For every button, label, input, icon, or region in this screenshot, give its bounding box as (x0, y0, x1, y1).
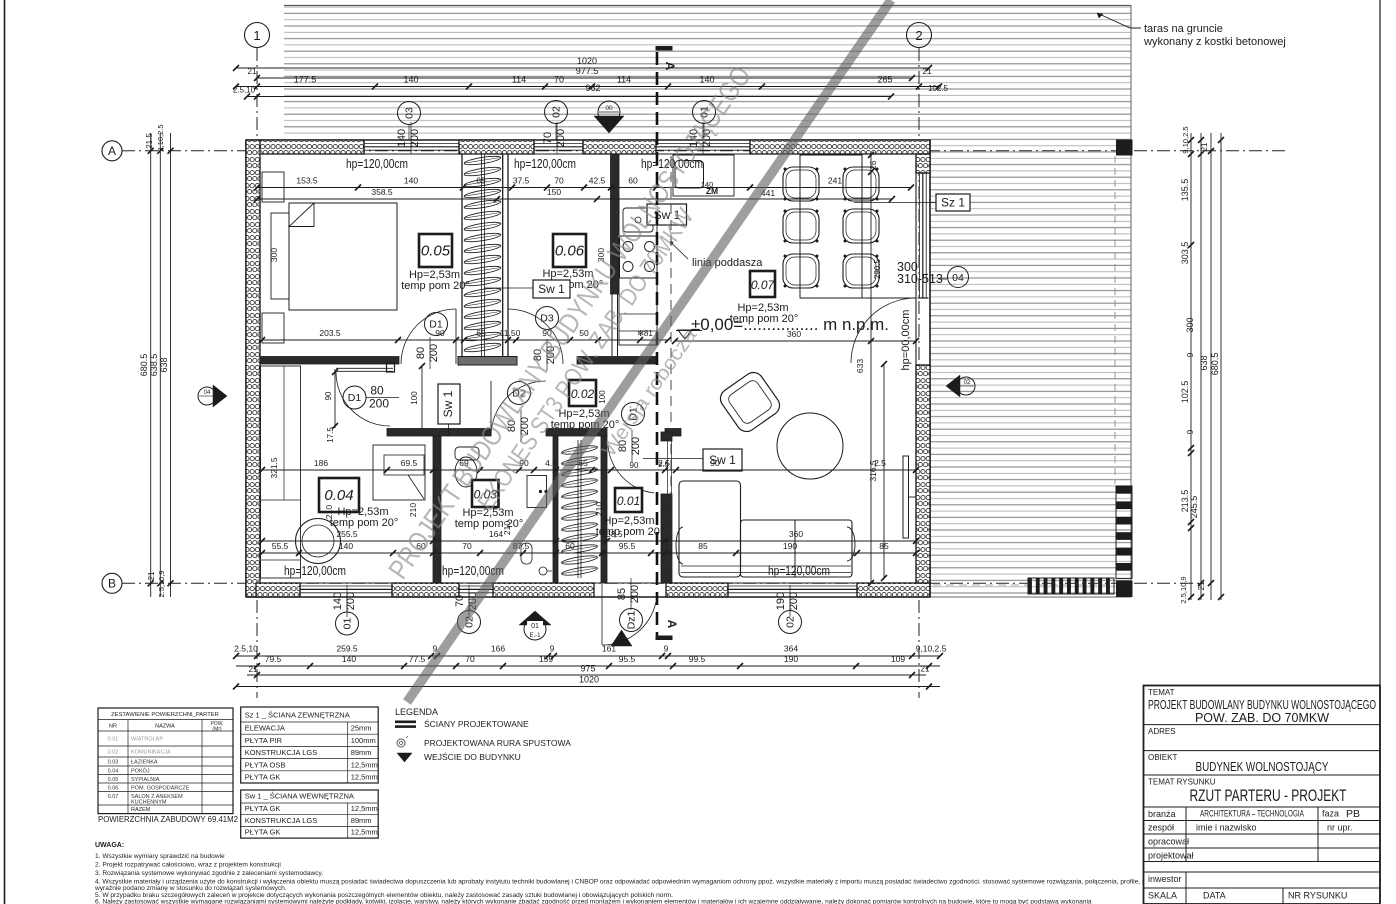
svg-text:02: 02 (551, 106, 563, 118)
svg-text:NR: NR (109, 724, 117, 730)
exterior wall top hatch segment 3 (583, 140, 656, 154)
bed in bedroom 0.05 (289, 203, 397, 310)
svg-text:ZESTAWIENIE POWIERZCHNI_PARTER: ZESTAWIENIE POWIERZCHNI_PARTER (111, 712, 219, 718)
top dimension row segments (236, 86, 939, 88)
exterior wall top hatch segment 1 (246, 140, 364, 154)
interior dim row C (bottom rooms) (262, 469, 916, 471)
svg-text:100: 100 (410, 391, 419, 405)
svg-text:1: 1 (253, 28, 260, 43)
svg-text:89mm: 89mm (351, 748, 372, 757)
grid line 2 (vertical axis) (918, 48, 920, 698)
elevation marker left (213, 385, 227, 407)
svg-text:NAZWA: NAZWA (155, 724, 175, 730)
svg-text:65: 65 (476, 176, 486, 186)
svg-text:358.5: 358.5 (371, 187, 393, 197)
room label 0.02 (569, 380, 596, 406)
interior wall H2c (vestibule top stub) (665, 429, 681, 437)
svg-text:POKÓJ: POKÓJ (131, 767, 150, 774)
door marker D1 (vestibule) (622, 403, 645, 426)
svg-text:0.01: 0.01 (617, 494, 640, 508)
svg-text:A: A (663, 62, 677, 71)
svg-text:RZUT PARTERU - PROJEKT: RZUT PARTERU - PROJEKT (1190, 787, 1347, 805)
svg-text:85: 85 (698, 541, 708, 551)
terrace bottom edge line (930, 596, 1131, 598)
svg-text:D1: D1 (348, 392, 362, 404)
elevation marker right (946, 375, 960, 397)
svg-text:A: A (665, 620, 679, 629)
interior wall V6 (stairwell lower right) (601, 436, 607, 583)
svg-text:imie i nazwisko: imie i nazwisko (1196, 823, 1257, 833)
svg-text:190: 190 (775, 592, 787, 610)
svg-text:95.5: 95.5 (619, 541, 636, 551)
grid line B (horizontal axis) (122, 582, 1200, 584)
svg-text:9: 9 (550, 644, 555, 654)
dining table (800, 155, 862, 298)
svg-text:2.5,10: 2.5,10 (233, 86, 256, 95)
sofa left armrest (676, 527, 683, 564)
svg-text:SKALA: SKALA (1148, 891, 1177, 901)
svg-text:0.04: 0.04 (108, 768, 119, 774)
staircase upper center rails (481, 154, 483, 356)
interior wall V5 (stairwell lower left) (553, 436, 558, 583)
svg-text:55.5: 55.5 (272, 541, 289, 551)
svg-text:hp=120,00cm: hp=120,00cm (346, 157, 408, 171)
bottom dimension row segments 2 (236, 665, 940, 667)
svg-text:11.50: 11.50 (500, 328, 521, 338)
dining chair left 3 (783, 254, 819, 288)
svg-text:PŁYTA GK: PŁYTA GK (245, 828, 281, 837)
wardrobe strip in room 0.04 (261, 366, 301, 578)
svg-text:80: 80 (370, 384, 384, 398)
legend downpipe symbol (397, 739, 405, 747)
svg-text:70: 70 (554, 75, 564, 85)
section line A-A vertical (thick dashed) (656, 52, 659, 640)
window 01 in top wall (140/200) (656, 142, 750, 144)
round coffee table (777, 413, 843, 479)
svg-text:140: 140 (339, 541, 353, 551)
tv panel on right wall (903, 456, 909, 538)
left dimension column lines (150, 133, 152, 597)
svg-text:265: 265 (877, 75, 892, 85)
svg-text:OBIEKT: OBIEKT (1148, 753, 1177, 762)
svg-text:140: 140 (699, 75, 714, 85)
water heater square in bathroom (527, 476, 547, 508)
interior wall V4 (between 0.04 and 0.03) (433, 436, 441, 583)
svg-text:140: 140 (404, 176, 418, 186)
jamb post between D1 doors (387, 363, 395, 372)
exterior wall top hatch segment 2 (459, 140, 534, 154)
kitchen counter shelf lines (619, 313, 657, 315)
room label 0.07 (750, 271, 775, 297)
svg-text:638.5: 638.5 (149, 354, 159, 377)
vestibule door frame lines (667, 441, 669, 494)
desk in room 0.04 (373, 445, 425, 500)
terrace hatch top band (284, 5, 1131, 136)
svg-text:BUDYNEK WOLNOSTOJĄCY: BUDYNEK WOLNOSTOJĄCY (1196, 759, 1329, 774)
interior wall H2a (bathroom 0.03 top wall) (387, 429, 491, 437)
svg-text:Sz 1 _ ŚCIANA ZEWNĘTRZNA: Sz 1 _ ŚCIANA ZEWNĘTRZNA (245, 711, 350, 720)
wall label box Sz 1 (right wall) (936, 194, 970, 211)
svg-text:153.5: 153.5 (296, 176, 318, 186)
wall table Sz 1 sciana zewnetrzna (241, 707, 379, 783)
svg-text:nr upr.: nr upr. (1327, 823, 1353, 833)
interior dim row D (bottom rooms) (262, 540, 916, 542)
terrace bottom dashed line (933, 584, 1113, 586)
svg-text:Sz 1: Sz 1 (941, 196, 965, 210)
wall table Sw 1 sciana wewnetrzna (241, 790, 379, 838)
toilet in bathroom 0.03 (455, 447, 479, 460)
dining chair right 2 (843, 209, 879, 243)
svg-text:faza: faza (1322, 809, 1339, 819)
svg-text:(M²): (M²) (212, 727, 221, 733)
room label 0.06 (553, 234, 586, 267)
bottom dimension row 975 (247, 674, 926, 676)
svg-text:ŚCIANY PROJEKTOWANE: ŚCIANY PROJEKTOWANE (424, 718, 529, 729)
washing machine in room 0.04 (296, 519, 341, 564)
interior wall H1c (right of D3 door, under kitchen wall) (577, 357, 656, 365)
exterior wall bottom hatch segment 3 (493, 583, 594, 597)
svg-text:962: 962 (585, 83, 600, 93)
svg-text:01: 01 (342, 618, 354, 630)
svg-text:21: 21 (923, 67, 932, 76)
wall label box Sw 1 (living room) (703, 449, 742, 471)
svg-text:TEMAT RYSUNKU: TEMAT RYSUNKU (1148, 778, 1216, 787)
svg-text:9: 9 (664, 644, 669, 654)
svg-text:26: 26 (869, 160, 878, 169)
entrance black triangle (wejscie) (611, 630, 632, 646)
svg-text:2.5,10,9: 2.5,10,9 (1179, 576, 1188, 603)
watermark diagonal band (407, 0, 891, 702)
svg-text:140: 140 (403, 75, 418, 85)
svg-text:100mm: 100mm (351, 736, 376, 745)
svg-text:0.05: 0.05 (108, 777, 119, 783)
exterior wall top - outer and inner face lines (246, 139, 930, 141)
svg-text:KOMUNIKACJA: KOMUNIKACJA (131, 750, 171, 756)
svg-text:4.5: 4.5 (545, 458, 557, 468)
svg-text:wyraźnie podano zmianę w stosu: wyraźnie podano zmianę w stosunku do roz… (94, 885, 287, 892)
svg-text:DATA: DATA (1203, 891, 1226, 901)
legend entrance symbol (397, 753, 412, 762)
svg-text:42.5: 42.5 (589, 176, 606, 186)
svg-text:177.5: 177.5 (294, 75, 317, 85)
exterior wall left (245, 140, 247, 597)
svg-text:166: 166 (491, 644, 505, 654)
door dim 100 vertical (bedroom D1) (421, 366, 423, 430)
svg-text:✻81: ✻81 (637, 329, 653, 338)
svg-text:210: 210 (324, 505, 334, 519)
svg-text:60: 60 (565, 541, 575, 551)
window 04 in right wall (glazed band) (918, 173, 920, 298)
svg-text:203.5: 203.5 (319, 328, 341, 338)
svg-text:2: 2 (915, 28, 922, 43)
svg-text:90: 90 (710, 458, 720, 468)
svg-text:04: 04 (204, 390, 211, 396)
dining chair right 3 (843, 254, 879, 288)
terrace hatch right band (930, 136, 1131, 597)
svg-text:114: 114 (512, 75, 526, 85)
nightstand lower (262, 313, 284, 343)
svg-text:PŁYTA GK: PŁYTA GK (245, 804, 281, 813)
svg-text:02: 02 (785, 616, 797, 628)
window marker 02 top (545, 101, 568, 124)
exterior wall bottom hatch segment 5 (857, 583, 930, 597)
svg-text:638: 638 (159, 357, 169, 372)
door marker D2 (508, 382, 531, 405)
window 03 in top wall (140/200) (364, 142, 459, 144)
armchair (rotated) in living room (717, 369, 784, 436)
stairwell upper right boundary double line (502, 154, 504, 356)
svg-text:360: 360 (787, 329, 801, 339)
svg-text:60: 60 (628, 176, 638, 186)
svg-text:zespół: zespół (1148, 823, 1174, 833)
wall label box Sw 1 (corridor, vertical) (438, 384, 460, 424)
svg-text:04: 04 (952, 272, 964, 284)
svg-text:9: 9 (1186, 352, 1195, 357)
svg-text:90: 90 (435, 328, 445, 338)
svg-text:210: 210 (408, 503, 418, 517)
svg-text:inwestor: inwestor (1148, 874, 1182, 884)
interior wall V7a (vestibule/living wall top stub) (661, 432, 672, 441)
svg-text:LEGENDA: LEGENDA (395, 707, 438, 717)
window 02 in top wall (70/200) (534, 142, 583, 144)
svg-text:21: 21 (248, 67, 257, 76)
svg-text:hp=120,00cm: hp=120,00cm (514, 157, 576, 171)
svg-text:977.5: 977.5 (576, 66, 599, 76)
svg-text:0.07: 0.07 (751, 278, 776, 292)
exterior wall bottom hatch segment 1 (256, 583, 300, 597)
window O1 in bottom wall (140/200) (300, 585, 392, 587)
svg-text:680.5: 680.5 (139, 354, 149, 377)
kitchen sink (623, 208, 653, 232)
exterior wall bottom - face lines (246, 596, 930, 598)
landing slab below upper stairs (458, 357, 517, 366)
watermark text PROJEKT BUDOWLANY (382, 61, 757, 585)
svg-text:hp=120,00cm: hp=120,00cm (768, 564, 830, 578)
svg-text:25mm: 25mm (351, 724, 372, 733)
svg-text:159: 159 (539, 654, 553, 664)
svg-text:95.5: 95.5 (619, 654, 636, 664)
kitchen stove with 4 burners (620, 236, 658, 278)
staircase lower center rails (577, 440, 579, 578)
sofa cushion lines (794, 520, 796, 577)
svg-text:UWAGA:: UWAGA: (95, 842, 124, 849)
svg-text:02: 02 (964, 380, 971, 386)
svg-text:65: 65 (476, 328, 486, 338)
legend wall symbol (395, 721, 416, 724)
svg-text:77.5: 77.5 (409, 654, 426, 664)
svg-text:186: 186 (314, 458, 328, 468)
window marker O2b bottom (779, 611, 802, 634)
svg-text:241: 241 (828, 176, 842, 186)
svg-text:102.5: 102.5 (928, 84, 949, 93)
svg-text:12,5mm: 12,5mm (351, 828, 378, 837)
svg-text:21.5: 21.5 (145, 133, 154, 149)
svg-text:KONSTRUKCJA LGS: KONSTRUKCJA LGS (245, 816, 318, 825)
svg-text:WEJŚCIE DO BUDYNKU: WEJŚCIE DO BUDYNKU (424, 751, 521, 762)
sofa right armrest (847, 527, 855, 561)
svg-text:hp=00,00cm: hp=00,00cm (900, 310, 912, 371)
svg-text:0.04: 0.04 (324, 487, 353, 504)
svg-text:12,5mm: 12,5mm (351, 804, 378, 813)
terrace roof overhang dashed line (1114, 156, 1116, 484)
svg-text:ARCHITEKTURA – TECHNOLOGIA: ARCHITEKTURA – TECHNOLOGIA (1200, 809, 1304, 820)
svg-text:21: 21 (921, 665, 930, 674)
elevation marker top (at 609,112) (594, 116, 624, 133)
svg-text:21: 21 (249, 665, 258, 674)
room label 0.01 (615, 488, 642, 512)
interior wall V3 (kitchen wall) (611, 154, 620, 294)
svg-text:E.-1: E.-1 (529, 633, 541, 639)
svg-text:0.05: 0.05 (421, 243, 451, 260)
svg-text:branża: branża (1148, 809, 1176, 819)
svg-text:WIATROŁAP: WIATROŁAP (131, 737, 163, 743)
svg-text:70: 70 (454, 595, 466, 607)
svg-text:69.5: 69.5 (401, 458, 418, 468)
svg-text:temp pom 20°: temp pom 20° (330, 517, 399, 529)
svg-text:70: 70 (542, 132, 554, 144)
svg-text:2.5,10: 2.5,10 (234, 644, 258, 654)
svg-text:21: 21 (147, 571, 156, 580)
exterior wall right hatch segment 2 (916, 365, 930, 583)
living room dim 360 row (675, 340, 916, 342)
svg-text:12,5mm: 12,5mm (351, 760, 378, 769)
svg-text:37.5: 37.5 (513, 176, 530, 186)
svg-text:temp pom 20°: temp pom 20° (401, 280, 470, 292)
svg-text:21: 21 (1200, 142, 1209, 151)
svg-text:210: 210 (594, 502, 604, 516)
svg-text:PŁYTA PIR: PŁYTA PIR (245, 736, 283, 745)
svg-text:90: 90 (324, 391, 333, 400)
svg-text:99.5: 99.5 (689, 654, 706, 664)
wall label box Sw 1 (stairs) (533, 280, 570, 298)
right dimension column lines (1190, 133, 1192, 600)
exterior wall right hatch segment 1 (916, 154, 930, 173)
svg-text:364: 364 (784, 644, 798, 654)
svg-text:Sw 1 _ ŚCIANA WEWNĘTRZNA: Sw 1 _ ŚCIANA WEWNĘTRZNA (245, 792, 354, 801)
scale ladder vertical at terrace corner (1116, 486, 1132, 494)
svg-text:0.07: 0.07 (108, 794, 119, 800)
sheet frame left border (4, 0, 6, 904)
kitchen fridge/dishwasher square ZM (675, 161, 704, 189)
svg-text:PB: PB (1346, 808, 1360, 820)
svg-text:1. Wszystkie wymiary sprawdzić: 1. Wszystkie wymiary sprawdzić na budowi… (95, 853, 225, 860)
svg-text:140: 140 (332, 592, 344, 610)
svg-text:NR RYSUNKU: NR RYSUNKU (1288, 891, 1347, 901)
svg-text:85: 85 (616, 588, 628, 600)
grid line A (horizontal axis) (122, 150, 1285, 152)
svg-text:102.5: 102.5 (1180, 381, 1190, 404)
svg-text:21: 21 (1197, 581, 1206, 590)
interior dim row corridor y340 (262, 339, 668, 341)
svg-text:140: 140 (342, 654, 356, 664)
black corner square top (grid A / terrace edge) (1116, 140, 1133, 156)
door marker D1 (bedroom) (425, 313, 448, 336)
svg-text:TEMAT: TEMAT (1148, 688, 1175, 697)
svg-text:03: 03 (404, 107, 416, 119)
svg-text:200: 200 (369, 397, 389, 411)
svg-text:3. Rozwiązania systemowe wykon: 3. Rozwiązania systemowe wykonywać zgodn… (95, 870, 323, 877)
window O2 in bottom wall (70/200) (459, 585, 493, 587)
section marker A bottom (656, 636, 673, 641)
svg-text:PŁYTA GK: PŁYTA GK (245, 773, 281, 782)
linia poddasza label and leader (670, 242, 673, 245)
svg-text:9,10,2.5: 9,10,2.5 (916, 644, 947, 654)
terrace door opening in right wall with swing arc (851, 298, 916, 363)
dining chair left 1 (783, 167, 819, 201)
svg-text:Dz1: Dz1 (626, 611, 638, 630)
top dimension row 962 (247, 96, 891, 98)
kitchen wall thin continuation (611, 294, 613, 356)
svg-text:A: A (108, 144, 116, 158)
terrace annotation leader (1097, 13, 1141, 28)
svg-text:0.02: 0.02 (108, 750, 119, 756)
svg-text:0.03: 0.03 (108, 760, 119, 766)
window marker 03 top (398, 102, 421, 125)
svg-text:PŁYTA OSB: PŁYTA OSB (245, 760, 286, 769)
svg-text:300: 300 (269, 248, 279, 262)
svg-text:303.5: 303.5 (1180, 242, 1190, 265)
svg-text:projektował: projektował (1148, 851, 1194, 861)
top dimension row 977.5 (257, 77, 912, 79)
washbasin pill in bathroom (521, 543, 532, 564)
sofa chaise part (679, 481, 741, 577)
svg-text:158.5: 158.5 (601, 529, 623, 539)
svg-text:300: 300 (1185, 317, 1195, 332)
wall label box Sw 1 (kitchen) (647, 204, 687, 225)
door D1 bedroom swing arc (401, 309, 456, 364)
svg-text:2.5,10,9: 2.5,10,9 (157, 570, 166, 597)
title block outer frame (1144, 686, 1381, 904)
elevation marker bottom (01 E.-1) (519, 611, 551, 625)
interior wall V7b (vestibule/living wall bottom) (661, 494, 672, 583)
svg-text:Sw 1: Sw 1 (538, 282, 565, 296)
window O2b in bottom wall (190/200) (728, 585, 857, 587)
svg-text:B: B (108, 577, 116, 591)
svg-text:wykonany z kostki betonowej: wykonany z kostki betonowej (1143, 36, 1286, 48)
svg-text:79.5: 79.5 (265, 654, 282, 664)
svg-text:Sw 1: Sw 1 (441, 390, 455, 417)
svg-text:RAZEM: RAZEM (131, 807, 151, 813)
svg-text:190: 190 (784, 654, 798, 664)
nightstand upper (262, 172, 284, 202)
svg-text:0.01: 0.01 (108, 737, 119, 743)
interior wall H2b (corridor / stairs top wall) (546, 429, 607, 437)
svg-text:321.5: 321.5 (269, 457, 279, 479)
room label 0.03 (472, 480, 499, 507)
svg-text:KONSTRUKCJA LGS: KONSTRUKCJA LGS (245, 748, 318, 757)
room label 0.05 (419, 234, 452, 267)
window marker O1 bottom (336, 612, 359, 635)
svg-text:opracował: opracował (1148, 837, 1189, 847)
svg-text:310-513: 310-513 (897, 272, 943, 286)
living room vertical dim 633 (870, 155, 872, 583)
attic line (linia poddasza) dashed (670, 156, 672, 583)
svg-text:POWIERZCHNIA ZABUDOWY 69.41M2: POWIERZCHNIA ZABUDOWY 69.41M2 (98, 814, 238, 824)
thin corridor wall with D1 door opening below bedroom wall (336, 367, 393, 369)
dining chair right 1 (843, 167, 879, 201)
svg-text:6. Należy zastosować wszystkie: 6. Należy zastosować wszystkie wymagane … (95, 899, 1092, 904)
living room vertical dim 316.5 (883, 364, 885, 578)
svg-text:temp pom 20°: temp pom 20° (551, 419, 620, 431)
bed headboard (271, 213, 289, 299)
svg-text:taras na gruncie: taras na gruncie (1144, 23, 1223, 35)
window marker 04 right wall (948, 267, 969, 288)
staircase upper flight coil hatch (464, 155, 502, 167)
interior dim row A (top rooms) (257, 187, 911, 189)
area table ZESTAWIENIE POWIERZCHNI (98, 708, 233, 814)
svg-text:hp=120,00cm: hp=120,00cm (284, 564, 346, 578)
svg-text:POW. ZAB. DO 70MKW: POW. ZAB. DO 70MKW (1195, 711, 1329, 725)
